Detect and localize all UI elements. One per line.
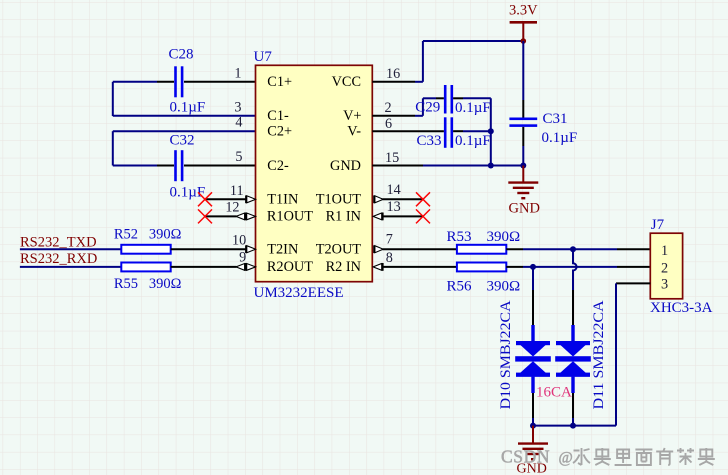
no-ERC X pin14: [416, 192, 430, 206]
resistor R56: [457, 263, 506, 272]
svg-text:GND: GND: [509, 201, 540, 217]
wire R55 to pin9: [171, 266, 237, 268]
watermark chinese glyph blocks: [573, 448, 715, 465]
resistor R53: [457, 245, 506, 254]
wire jog up to C29: [422, 98, 424, 116]
wire C29 row right: [453, 97, 463, 99]
ground GND top: [508, 166, 538, 199]
wire RS232_TXD: [20, 248, 121, 250]
svg-text:C32: C32: [170, 133, 195, 149]
pin numbers left: [225, 66, 246, 266]
wire pin13 stub: [383, 215, 424, 217]
wire RS232_RXD: [20, 266, 121, 268]
wire right cap bus vertical: [490, 98, 492, 165]
wire J7 pin3: [616, 282, 650, 284]
svg-text:VCC: VCC: [332, 74, 361, 90]
svg-text:1: 1: [661, 243, 668, 259]
svg-text:7: 7: [386, 232, 393, 248]
svg-text:@: @: [559, 450, 573, 467]
wire C32 to pin5: [184, 165, 256, 167]
junction C33/bus: [488, 128, 494, 134]
wire pin2 stub: [372, 115, 415, 117]
no-ERC X pin13: [416, 209, 430, 223]
wire pin1 row to C28: [113, 81, 157, 83]
svg-text:C2+: C2+: [267, 124, 292, 140]
svg-text:C1+: C1+: [267, 74, 292, 90]
wire R53 to J7 pin1: [506, 248, 523, 250]
svg-text:T1OUT: T1OUT: [316, 192, 362, 208]
svg-text:RS232_RXD: RS232_RXD: [20, 251, 97, 267]
lead D11 lower: [571, 377, 574, 393]
pin 9 output arrow: [236, 263, 256, 271]
wire R52 to pin10: [171, 248, 246, 250]
wire pin12 stub: [205, 215, 237, 217]
svg-text:8: 8: [386, 250, 393, 266]
svg-text:3.3V: 3.3V: [509, 2, 538, 18]
svg-text:16CA: 16CA: [536, 385, 572, 401]
ground GND bottom: [518, 426, 548, 460]
svg-text:R56 390Ω: R56 390Ω: [447, 278, 521, 294]
wire bottom bus: [533, 425, 616, 427]
capacitor C28: [174, 66, 183, 97]
no-ERC X pin12: [198, 209, 212, 223]
wire pin5 row to C32: [113, 165, 157, 167]
wire pin4 row: [113, 130, 256, 132]
capacitor C33: [444, 117, 453, 148]
svg-text:V+: V+: [343, 108, 361, 124]
pin 12 output arrow: [236, 213, 256, 221]
op-amp U7 body: [256, 65, 373, 281]
svg-text:R55 390Ω: R55 390Ω: [114, 276, 182, 292]
svg-text:C33: C33: [417, 133, 442, 149]
capacitor C31: [509, 118, 537, 127]
connector J7 body: [650, 233, 682, 299]
svg-text:12: 12: [225, 200, 239, 216]
wire pin14 stub: [383, 198, 424, 200]
svg-text:C28: C28: [169, 47, 194, 63]
junction bus/GND row: [488, 163, 494, 169]
svg-text:C29: C29: [415, 100, 440, 116]
wire C33 row right: [453, 130, 463, 132]
svg-text:15: 15: [385, 150, 399, 166]
svg-text:R2 IN: R2 IN: [326, 259, 361, 275]
svg-text:C1-: C1-: [267, 108, 289, 124]
wire pin7 to R53: [383, 248, 457, 250]
svg-text:2: 2: [385, 100, 392, 116]
svg-text:0.1µF: 0.1µF: [455, 133, 491, 149]
wire C2+ loop left vertical: [112, 131, 114, 165]
svg-text:14: 14: [387, 182, 401, 198]
svg-text:R2OUT: R2OUT: [267, 259, 313, 275]
junction D10 on pin2 net: [530, 264, 536, 270]
wire pin8 to R56: [383, 266, 457, 268]
junction D10 bottom: [530, 423, 536, 429]
pin 10 input arrow: [246, 245, 256, 253]
wire pin16 to riser: [372, 81, 415, 83]
lead D10 lower: [531, 377, 534, 393]
wire pin11 stub: [205, 198, 246, 200]
svg-text:0.1µF: 0.1µF: [170, 100, 206, 116]
svg-text:R53 390Ω: R53 390Ω: [447, 229, 521, 245]
svg-text:GND: GND: [330, 158, 361, 174]
wire C28 to pin1: [184, 81, 256, 83]
resistor R55: [121, 263, 170, 272]
svg-text:2: 2: [661, 261, 668, 277]
svg-text:0.1µF: 0.1µF: [542, 130, 578, 146]
svg-text:11: 11: [230, 183, 244, 199]
svg-text:C2-: C2-: [267, 158, 289, 174]
wire pin15 GND row: [372, 165, 423, 167]
pin 8 input arrow: [373, 263, 383, 271]
svg-text:5: 5: [235, 149, 242, 165]
wire pin6 to C33: [372, 130, 444, 132]
svg-text:13: 13: [387, 199, 401, 215]
pin names right column: [316, 74, 362, 275]
svg-text:V-: V-: [347, 124, 361, 140]
junction GND row/rail: [520, 163, 526, 169]
junction D11 on pin1 net: [570, 246, 576, 252]
svg-text:C31: C31: [543, 111, 568, 127]
diode D10 (bidirectional TVS): [515, 341, 551, 377]
svg-text:3: 3: [234, 99, 241, 115]
wire C1+ loop left vertical: [112, 82, 114, 116]
pin numbers right: [385, 66, 401, 266]
no-ERC X pin11: [198, 192, 212, 206]
wire 3.3V down to C31: [522, 41, 524, 100]
svg-text:10: 10: [232, 233, 246, 249]
wire D10 vertical upper: [532, 267, 534, 290]
svg-text:R52 390Ω: R52 390Ω: [114, 227, 182, 243]
svg-text:R1OUT: R1OUT: [267, 209, 313, 225]
svg-text:T1IN: T1IN: [267, 192, 298, 208]
svg-text:3: 3: [661, 277, 668, 293]
watermark CSDN: [501, 447, 573, 467]
pin 11 input arrow: [246, 195, 256, 203]
pin 7 output arrow: [374, 245, 383, 253]
wire D11 vertical upper with hop over RXD net: [573, 249, 577, 290]
svg-text:UM3232EESE: UM3232EESE: [254, 285, 344, 301]
svg-text:D11 SMBJ22CA: D11 SMBJ22CA: [591, 300, 607, 409]
svg-text:1: 1: [234, 66, 241, 82]
svg-text:D10 SMBJ22CA: D10 SMBJ22CA: [498, 300, 514, 409]
svg-text:T2OUT: T2OUT: [316, 242, 362, 258]
lead D10 upper: [532, 290, 534, 325]
lead D11 upper: [572, 290, 574, 325]
capacitor C29: [444, 85, 453, 114]
diode D11 (bidirectional TVS): [555, 341, 591, 377]
svg-text:0.1µF: 0.1µF: [455, 100, 491, 116]
svg-text:16: 16: [386, 66, 400, 82]
svg-text:R1 IN: R1 IN: [326, 209, 361, 225]
svg-text:T2IN: T2IN: [267, 242, 298, 258]
pin 13 input arrow: [373, 213, 383, 221]
wire C31 down to GND node: [522, 127, 524, 146]
junction D11 bottom: [570, 423, 576, 429]
pin names left column: [267, 74, 313, 275]
wire riser up: [422, 41, 424, 82]
svg-text:6: 6: [385, 116, 392, 132]
svg-text:4: 4: [235, 115, 242, 131]
svg-text:U7: U7: [254, 49, 273, 65]
svg-text:CSDN: CSDN: [501, 447, 550, 467]
wire pin3 row: [113, 115, 256, 117]
wire C29 row left: [423, 97, 436, 99]
svg-text:J7: J7: [651, 217, 665, 233]
resistor R52: [121, 245, 170, 254]
svg-text:0.1µF: 0.1µF: [170, 185, 206, 201]
pin numbers J7: [661, 243, 668, 292]
svg-text:XHC3-3A: XHC3-3A: [650, 300, 713, 316]
wire R56 to J7 pin2: [506, 266, 523, 268]
wire top to 3.3V: [423, 40, 523, 42]
power 3.3V symbol: [510, 22, 537, 44]
pin 14 output arrow: [374, 195, 383, 203]
wire pin3 down: [615, 283, 617, 425]
capacitor C32: [174, 150, 183, 181]
